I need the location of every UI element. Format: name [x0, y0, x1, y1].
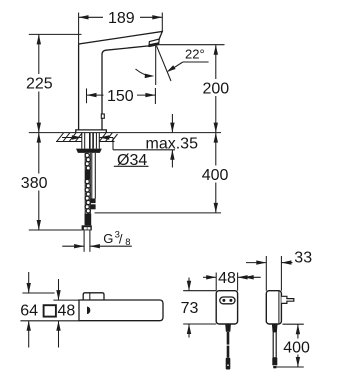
svg-text:8: 8	[125, 237, 130, 248]
dim 64	[20, 272, 54, 348]
dim 225	[26, 34, 82, 132]
svg-text:max.35: max.35	[146, 135, 199, 152]
dim 48 psu	[203, 270, 253, 291]
psu front strain relief	[225, 324, 231, 332]
aerator	[149, 39, 159, 46]
plan view faucet body	[79, 300, 163, 321]
svg-text:64: 64	[20, 302, 38, 319]
plan view aerator bump	[83, 293, 104, 300]
dim 380	[21, 133, 82, 230]
svg-text:48: 48	[218, 270, 236, 287]
svg-text:Ø34: Ø34	[117, 152, 147, 169]
power supply front box	[216, 291, 237, 324]
sensor beam slanted	[157, 46, 172, 81]
direction arrow	[244, 275, 261, 279]
sensor cable beside hose	[91, 153, 96, 209]
22 deg label and leader	[167, 47, 209, 72]
svg-text:33: 33	[294, 249, 312, 266]
psu front cable	[227, 332, 230, 358]
power supply side box	[266, 291, 281, 324]
svg-text:200: 200	[203, 80, 230, 97]
dim 400 right	[275, 324, 310, 367]
deck top line	[29, 132, 221, 134]
psu front plug	[226, 358, 231, 370]
svg-text:400: 400	[202, 167, 229, 184]
dim 200	[159, 45, 229, 133]
svg-text:48: 48	[58, 302, 76, 319]
svg-text:150: 150	[107, 88, 134, 105]
svg-text:189: 189	[108, 10, 135, 27]
mains pin	[281, 296, 293, 303]
deck band bottom line	[56, 141, 115, 143]
plan view sensor window	[87, 307, 90, 314]
faucet sensor window	[101, 114, 104, 118]
max.35 dimension	[113, 114, 198, 168]
dia 34 label	[62, 135, 149, 169]
shank between deck	[82, 133, 100, 149]
socket face	[220, 297, 235, 304]
G 3/8 dimension	[62, 230, 132, 249]
faucet base flange	[76, 130, 107, 133]
dim square 48	[20, 279, 79, 348]
braided hose	[85, 153, 92, 225]
deck hatching	[57, 133, 118, 141]
dim 189 line and arrows	[79, 10, 163, 27]
svg-text:400: 400	[283, 339, 310, 356]
beam arc arrow	[136, 69, 155, 78]
svg-text:73: 73	[181, 300, 199, 317]
svg-text:/: /	[119, 232, 123, 247]
mounting nut	[76, 149, 102, 153]
svg-text:22°: 22°	[185, 47, 205, 62]
hose connector	[82, 225, 92, 230]
svg-text:380: 380	[21, 175, 48, 192]
psu side cable	[273, 332, 276, 358]
svg-text:G: G	[103, 231, 113, 246]
dim 189 extension lines	[79, 13, 163, 45]
psu side plug	[272, 358, 277, 369]
supply pipe	[84, 230, 90, 251]
sensor beam vertical	[155, 46, 157, 85]
faucet body outline	[79, 32, 163, 130]
dim 33	[246, 249, 312, 290]
dim 73	[181, 278, 217, 338]
dim 400 left	[95, 133, 229, 213]
psu side strain relief	[272, 324, 278, 332]
dim 150	[87, 88, 156, 105]
svg-text:225: 225	[26, 76, 53, 93]
